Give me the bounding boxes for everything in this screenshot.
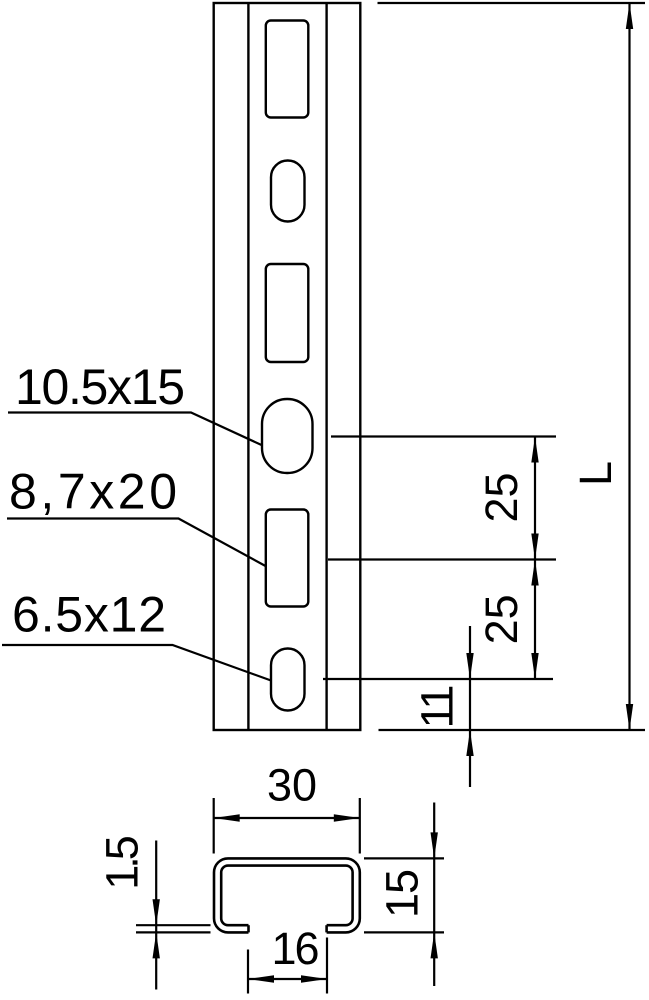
arrow right of 16 xyxy=(301,975,327,982)
30 dimension line xyxy=(214,817,360,819)
arrow up of 25 lower xyxy=(531,560,538,586)
dimension line L xyxy=(628,3,630,730)
rail outer outline (front view) xyxy=(214,3,361,730)
extension line at slot3 center xyxy=(328,558,556,560)
arrow right of 30 xyxy=(334,814,360,821)
svg-text:10.5x15: 10.5x15 xyxy=(15,359,185,415)
svg-text:11: 11 xyxy=(412,687,463,729)
leader line for label 8,7x20 xyxy=(7,519,266,567)
leader line for label 10.5x15 xyxy=(8,413,262,446)
16 dimension line xyxy=(248,978,327,980)
arrow down of L xyxy=(626,704,633,730)
rail right flange inner line xyxy=(325,3,327,730)
right lip end cap xyxy=(325,925,328,932)
arrow left of 30 xyxy=(214,814,240,821)
section view outer profile xyxy=(214,858,360,932)
arrow up of 25 upper xyxy=(531,437,538,463)
15 dimension line xyxy=(433,803,435,987)
slot hole 8.7x20 second xyxy=(266,264,309,362)
arrow left of 16 xyxy=(248,975,274,982)
bottom extension line for L and 11 xyxy=(379,729,646,731)
1.5 thickness extension line lower xyxy=(136,931,211,933)
30 dim extension line right xyxy=(359,798,361,854)
slot hole 8.7x20 third xyxy=(266,510,309,607)
svg-text:15: 15 xyxy=(376,870,427,918)
15 dim extension line bottom xyxy=(364,931,444,933)
extension line at 10.5x15 hole center xyxy=(331,435,556,437)
arrow down of 25 upper xyxy=(531,534,538,560)
rail left flange inner line xyxy=(247,3,249,730)
svg-text:L: L xyxy=(570,461,621,486)
left lip end cap xyxy=(247,925,250,932)
round hole 10.5x15 xyxy=(262,399,313,473)
arrow up of 15 xyxy=(431,932,438,958)
top extension line for L xyxy=(378,2,646,4)
arrow up of 1.5 xyxy=(153,932,160,958)
extension line at lower oval center xyxy=(323,678,553,680)
1.5 dimension line xyxy=(155,841,157,990)
section view inner profile xyxy=(221,866,352,926)
arrow up of 11 (below) xyxy=(466,730,473,756)
dimension line 11 xyxy=(469,626,471,730)
svg-text:30: 30 xyxy=(267,760,317,811)
svg-text:1.5: 1.5 xyxy=(97,836,148,890)
leader line for label 6.5x12 xyxy=(2,645,271,681)
svg-text:16: 16 xyxy=(271,923,318,974)
dimension line 25 upper xyxy=(534,437,536,560)
arrow down of 25 lower xyxy=(531,653,538,679)
svg-text:6.5x12: 6.5x12 xyxy=(12,587,166,643)
30 dim extension line left xyxy=(213,798,215,854)
dimension line 25 lower xyxy=(534,560,536,680)
arrow down of 15 xyxy=(431,832,438,858)
svg-text:25: 25 xyxy=(476,472,527,522)
1.5 thickness extension line upper xyxy=(136,924,211,926)
15 dim extension line top xyxy=(364,857,444,859)
svg-text:25: 25 xyxy=(476,594,527,644)
16 dim extension line right xyxy=(326,938,328,994)
oval hole 6.5x12 lower xyxy=(271,649,305,711)
svg-text:8,7x20: 8,7x20 xyxy=(9,464,177,520)
arrow up of L xyxy=(626,3,633,29)
16 dim extension line left xyxy=(247,950,249,994)
arrow down of 1.5 xyxy=(153,899,160,925)
arrow down of 11 (above) xyxy=(466,653,473,679)
slot hole 8.7x20 top xyxy=(266,21,309,118)
oval hole 6.5x12 upper xyxy=(271,161,305,222)
